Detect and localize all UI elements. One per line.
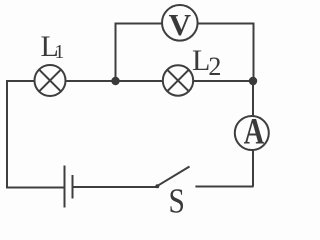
wire battery to bottom-left corner: [6, 187, 65, 189]
switch pivot dot: [155, 184, 159, 188]
wire right vertical down to node J2: [253, 23, 255, 82]
wire switch to battery: [73, 186, 158, 188]
svg-text:V: V: [169, 7, 192, 42]
node J2 junction dot: [249, 77, 257, 85]
wire top-left horizontal to L1: [6, 80, 35, 82]
wire L2 to node J2: [193, 80, 253, 82]
lamp L1: [35, 65, 66, 96]
svg-text:A: A: [244, 112, 265, 152]
wire node J1 up to voltmeter branch: [115, 23, 117, 82]
switch S blade: [157, 167, 190, 187]
svg-text:S: S: [169, 182, 185, 214]
svg-text:L1: L1: [41, 30, 65, 63]
wire bottom-right horizontal to switch: [195, 186, 253, 188]
battery B1 long plate: [64, 166, 66, 208]
wire ammeter down to bottom-right corner: [252, 150, 254, 187]
wire voltmeter branch top-right horizontal: [198, 23, 254, 25]
ammeter U2 circle: [235, 116, 269, 150]
svg-text:L2: L2: [192, 44, 221, 81]
wire node J1 to L2: [116, 80, 164, 82]
wire voltmeter branch top-left horizontal: [115, 23, 163, 25]
lamp L2: [163, 65, 193, 95]
voltmeter U1 circle: [162, 5, 198, 41]
wire node J2 down to ammeter: [252, 81, 254, 116]
battery B1 short plate: [72, 175, 74, 199]
wire L1 to node J1: [66, 80, 116, 82]
node J1 junction dot: [111, 77, 119, 85]
wire left vertical: [6, 81, 8, 188]
